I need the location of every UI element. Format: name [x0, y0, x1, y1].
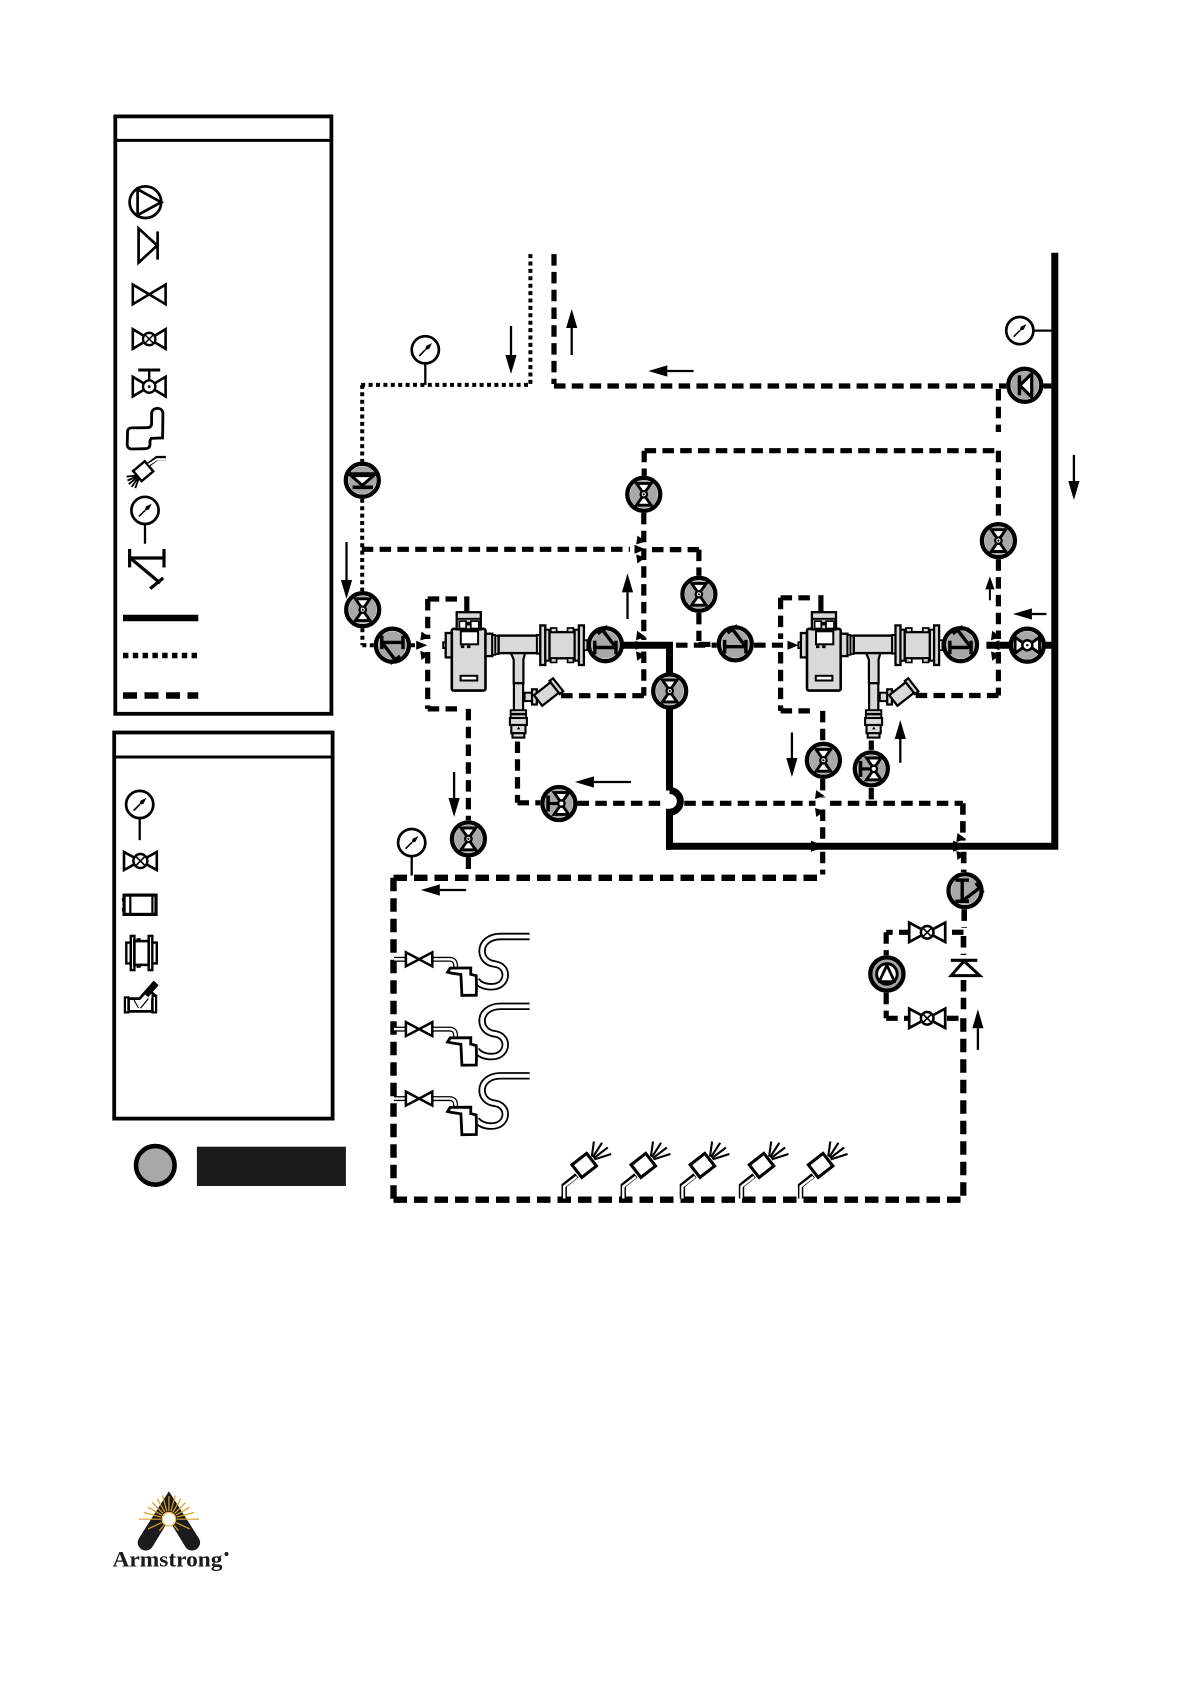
arrow: down MCW riser — [1073, 455, 1075, 481]
wire: dashed big loop — [394, 875, 823, 881]
wire: dotted into suction balancing valve — [362, 643, 373, 647]
wire: dashed drop to hourglass 700 — [696, 550, 701, 576]
legend: eyewash fixture symbol — [127, 408, 163, 449]
pump assembly P2 — [798, 612, 942, 737]
arrow: up right pump drain — [899, 739, 901, 763]
wire: dashed frame right pump — [781, 595, 814, 600]
note black bar — [197, 1147, 346, 1186]
wire: dotted CW drop to PRV — [360, 385, 364, 462]
valve: PRV on CW drop — [346, 464, 379, 497]
wire: dotted CW supply top riser — [528, 254, 532, 385]
valve: hose drain valve left — [542, 787, 575, 820]
valve: balancing bottom right riser — [949, 874, 984, 907]
legend: balancing valve symbol — [128, 549, 165, 589]
legend: dashed line sample — [123, 692, 198, 699]
valve: hourglass x700 — [682, 578, 715, 611]
wire: dotted below hourglass valve — [360, 628, 364, 645]
wire: dashed cross header y549 left — [362, 547, 630, 552]
valve: hourglass on thick outlet — [653, 675, 686, 708]
valve: hourglass left frame drop — [452, 822, 485, 855]
valve: circled globe mixing tee — [1011, 629, 1044, 662]
wire: dashed right downcomer x963 — [960, 803, 966, 840]
svg-text:Armstrong: Armstrong — [113, 1547, 224, 1572]
gauge: CW header — [424, 363, 426, 385]
pipe: thick mixed outlet upper — [622, 645, 670, 790]
wire: dashed drop from recirc header to hourglass — [642, 451, 647, 476]
legend: solid line sample — [123, 615, 198, 622]
valve: bypass globe bottom — [909, 1009, 945, 1028]
wire: dashed strainer drain left pump — [556, 693, 644, 698]
wire: dashed frame drop right — [820, 711, 825, 742]
arrow: left drain header — [594, 781, 631, 783]
nozzle 5 — [801, 1142, 848, 1199]
wire: dashed HW return top riser — [551, 254, 556, 384]
nozzle 3 — [682, 1142, 729, 1199]
gauge: MCW riser — [1032, 329, 1051, 331]
arrow: up junction left — [626, 592, 628, 619]
wire: dashed hourglass to tee junction — [641, 513, 646, 640]
arrow: down right frame drop — [791, 733, 793, 759]
wire: dashed cross header y549 right — [652, 547, 699, 552]
legend box 1 header rule — [115, 139, 331, 142]
valve: balancing left discharge — [589, 626, 622, 661]
junction: x963 thick crossing wedges — [956, 833, 966, 842]
arrow: up bottom right riser — [977, 1028, 979, 1050]
arrow: left bottom loop — [440, 889, 466, 891]
legend: pump symbol — [130, 186, 162, 218]
wire: dashed recirc header y450 — [645, 448, 996, 453]
arrow into right pump suction — [788, 641, 799, 650]
wire: dashed drain right hose — [869, 741, 874, 750]
pipe: thick bottom header — [666, 843, 1058, 850]
legend: dotted line sample — [123, 653, 198, 659]
gauge: bottom loop — [411, 856, 413, 876]
arrow: up HW riser — [571, 328, 573, 355]
wire: dotted balancing valve to pump suction — [411, 643, 424, 647]
pump assembly P1 — [443, 612, 587, 737]
wire: dashed strainer drain right pump — [910, 693, 999, 698]
arrow: up right riser small — [989, 589, 991, 600]
legend2: flanged coupling symbol — [126, 936, 157, 970]
legend2: globe valve symbol — [124, 852, 157, 870]
wire: dashed bypass loop — [947, 930, 964, 935]
wire: dotted PRV to hourglass valve — [360, 499, 364, 591]
wire: dashed frame drop left — [466, 709, 471, 820]
valve: check on riser — [951, 960, 980, 975]
valve: hourglass recirc drop — [627, 478, 660, 511]
legend2: flexible connector symbol — [122, 895, 156, 914]
wire: dashed hourglass 700 to suction line — [696, 613, 701, 641]
legend: gate valve symbol — [133, 285, 166, 305]
junction arrow on y549 — [635, 545, 646, 554]
junction: right mixing tee — [991, 631, 1001, 640]
pipe: thick MCW riser — [1051, 253, 1058, 843]
wire: dashed suction line right pump — [676, 643, 717, 648]
wire: dashed drain left hose — [515, 742, 520, 803]
arrow: left mixing tee — [1032, 613, 1047, 615]
valve: circled check on HW header — [1008, 369, 1041, 402]
fixture branch 3 — [394, 1076, 530, 1135]
nozzle 4 — [742, 1142, 789, 1199]
nozzle 2 — [623, 1142, 670, 1199]
valve: bypass globe top — [909, 923, 945, 942]
Armstrong logo mark — [138, 1491, 200, 1550]
legend: aspirator nozzle symbol — [127, 458, 166, 488]
note marker circle — [136, 1146, 175, 1185]
fixture branch 2 — [394, 1006, 530, 1065]
pipe: thick mixing tee segment right — [986, 642, 1054, 649]
nozzle 1 — [564, 1142, 611, 1199]
junction: drain header crossing — [815, 790, 825, 799]
arrow: down CW drop — [345, 542, 347, 580]
pipe hop mask — [662, 795, 681, 811]
legend: check valve symbol — [139, 228, 158, 262]
valve: balancing right discharge — [944, 626, 977, 661]
valve: hourglass right frame drop — [807, 744, 840, 777]
arrowheads on thick bottom header — [811, 841, 826, 852]
wire: dashed HW return header — [554, 383, 1006, 388]
legend2: gauge symbol — [126, 791, 153, 818]
arrow: down into CW header — [510, 326, 512, 355]
valve: hourglass CW drop — [346, 593, 379, 626]
pipe: thick mixed outlet hop and lower — [670, 791, 681, 850]
legend box 1 frame — [115, 116, 331, 713]
wire: dashed frame left pump — [428, 596, 461, 601]
valve: hourglass right riser — [982, 524, 1015, 557]
arrow: down left frame drop — [453, 772, 455, 798]
wire: dashed drain header y803 — [578, 801, 816, 806]
junction: CW/cross header tee — [636, 631, 646, 640]
legend box 2 frame — [114, 733, 332, 1119]
legend: ball valve symbol with T-handle — [133, 370, 166, 396]
arrow: left HW header — [667, 370, 693, 372]
legend: pressure gauge symbol — [131, 497, 158, 524]
valve: balancing right suction — [719, 626, 752, 661]
legend box 2 header rule — [114, 756, 332, 759]
legend2: y-strainer symbol — [125, 982, 158, 1013]
wire: dotted CW supply header — [361, 383, 530, 387]
legend: globe valve symbol — [133, 329, 166, 349]
wire: dashed below tee to strainer corner — [641, 652, 646, 696]
valve: balancing left suction — [376, 629, 409, 664]
valve: hose drain valve right — [855, 752, 888, 785]
wire: dashed right riser x998 — [996, 389, 1001, 432]
pump: bypass circulator — [870, 957, 903, 990]
junction: suction entering left frame — [416, 641, 427, 650]
fixture branch 1 — [394, 937, 530, 996]
